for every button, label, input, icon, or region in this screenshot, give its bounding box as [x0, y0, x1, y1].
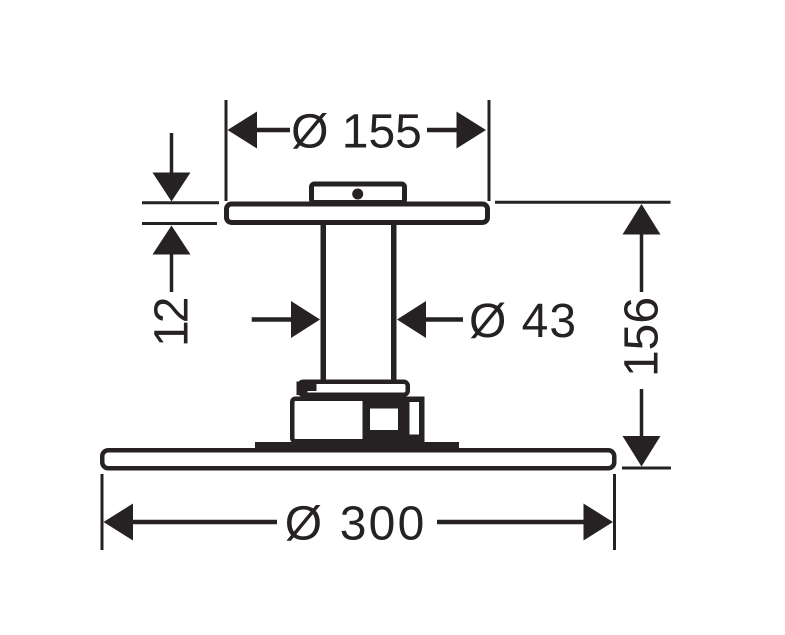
- mounting band on disc: [255, 442, 459, 450]
- collar ring: [299, 382, 408, 395]
- svg-text:Ø 155: Ø 155: [291, 106, 422, 159]
- svg-text:Ø 300: Ø 300: [285, 498, 427, 551]
- ceiling flange plate: [227, 204, 488, 223]
- dimension Ø43: left arrow (points right): [291, 301, 320, 338]
- dimension Ø155: left arrow: [228, 112, 258, 149]
- svg-text:Ø 43: Ø 43: [469, 295, 577, 348]
- collar clip detail: [297, 382, 317, 392]
- dimension 156: up arrow: [623, 204, 661, 235]
- dimension Ø300: left extension line: [101, 474, 104, 550]
- dimension Ø43: left line segment: [252, 317, 292, 322]
- dimension 156: lower dimension line: [640, 389, 644, 438]
- connection block: filled right part: [363, 397, 425, 444]
- svg-text:12: 12: [146, 298, 199, 347]
- dimension Ø155: right extension line: [488, 100, 491, 201]
- dimension 12: down arrow: [153, 173, 191, 202]
- dimension 12: top extension line: [142, 201, 219, 204]
- dimension Ø300: right line segment: [437, 520, 585, 525]
- connection block: [292, 399, 422, 442]
- dimension Ø155: left line segment: [256, 128, 290, 133]
- dimension 156: down arrow: [623, 436, 661, 467]
- dimension 12: up arrow: [153, 226, 191, 255]
- dimension 12: lower dimension line: [170, 254, 174, 292]
- connection block: inner window: [370, 409, 398, 431]
- dimension Ø155: right line segment: [427, 128, 458, 133]
- pipe left wall: [321, 222, 327, 382]
- svg-text:156: 156: [615, 297, 668, 377]
- connection block: right slot: [410, 402, 420, 435]
- dimension Ø155: left extension line: [225, 100, 228, 201]
- dimension 12: bottom extension line: [142, 222, 217, 225]
- pipe right wall: [391, 222, 397, 382]
- shower plate disc: [102, 450, 614, 468]
- dimension Ø155: right arrow: [457, 112, 487, 149]
- dimension Ø300: right extension line: [613, 474, 616, 550]
- dimension Ø300: right arrow: [584, 504, 614, 541]
- dimension 12: upper dimension line: [170, 133, 174, 173]
- connector box on top of flange: [312, 184, 405, 203]
- dimension Ø300: left arrow: [104, 504, 134, 541]
- dimension 156: upper dimension line: [640, 234, 644, 292]
- dimension 156: bottom extension line: [622, 467, 671, 470]
- dimension Ø300: left line segment: [132, 520, 277, 525]
- dimension Ø43: right arrow (points left): [397, 301, 426, 338]
- dimension Ø43: right line segment: [426, 317, 464, 322]
- dimension 156: top extension line: [495, 201, 671, 204]
- screw dot on connector box: [352, 189, 363, 200]
